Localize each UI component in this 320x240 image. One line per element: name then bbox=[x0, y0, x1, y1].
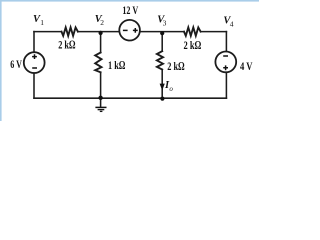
VS3 plus sign bbox=[223, 65, 228, 70]
VS1 minus sign bbox=[32, 67, 37, 69]
wire 12V source to V3 to R2 bbox=[140, 31, 184, 33]
wire V3 branch lower with Io bbox=[161, 70, 163, 99]
resistor R4 2k vertical bbox=[157, 51, 163, 69]
svg-text:4: 4 bbox=[230, 20, 234, 29]
svg-text:2 kΩ: 2 kΩ bbox=[58, 38, 75, 52]
wire R2 to V4 corner bbox=[201, 31, 227, 33]
svg-text:6 V: 6 V bbox=[10, 57, 22, 71]
resistor R1 2k horizontal bbox=[62, 27, 78, 35]
voltage source VS3 4V circle bbox=[215, 52, 236, 73]
svg-text:2 kΩ: 2 kΩ bbox=[184, 38, 202, 52]
wire R1 to 12V source bbox=[78, 31, 120, 33]
svg-text:1: 1 bbox=[40, 18, 44, 27]
resistor R3 1k vertical bbox=[95, 53, 101, 73]
node V2 junction dot bbox=[99, 31, 103, 35]
voltage source VS2 12V circle bbox=[119, 20, 140, 41]
svg-text:1 kΩ: 1 kΩ bbox=[108, 58, 125, 72]
wire top-left: V1 corner to R1 bbox=[34, 31, 62, 33]
ground symbol bbox=[95, 107, 106, 111]
wire bottom rail bbox=[34, 97, 226, 99]
svg-text:3: 3 bbox=[163, 19, 167, 28]
wire right branch lower bbox=[225, 73, 227, 99]
wire left branch upper bbox=[33, 32, 35, 53]
voltage source VS1 6V circle bbox=[24, 52, 45, 73]
svg-text:2 kΩ: 2 kΩ bbox=[167, 59, 184, 73]
VS1 plus sign bbox=[32, 54, 37, 59]
wire V3 branch upper bbox=[161, 33, 163, 51]
wire right branch upper bbox=[225, 32, 227, 52]
svg-text:o: o bbox=[169, 85, 173, 93]
wire V2 branch lower to ground node bbox=[100, 72, 102, 98]
ground stem bbox=[100, 98, 102, 106]
svg-text:4 V: 4 V bbox=[240, 59, 253, 73]
current arrow Io bbox=[160, 84, 165, 91]
ground node junction dot bbox=[98, 96, 102, 100]
svg-text:2: 2 bbox=[100, 18, 104, 27]
VS2 minus sign bbox=[123, 29, 128, 31]
VS3 minus sign bbox=[223, 55, 228, 57]
Io branch bottom junction dot bbox=[160, 97, 164, 101]
wire left branch lower bbox=[33, 73, 35, 98]
VS2 plus sign bbox=[133, 28, 138, 33]
wire V2 branch upper bbox=[100, 32, 102, 53]
svg-text:12 V: 12 V bbox=[122, 3, 138, 17]
resistor R2 2k horizontal bbox=[184, 27, 201, 35]
node V3 junction dot bbox=[160, 31, 164, 35]
